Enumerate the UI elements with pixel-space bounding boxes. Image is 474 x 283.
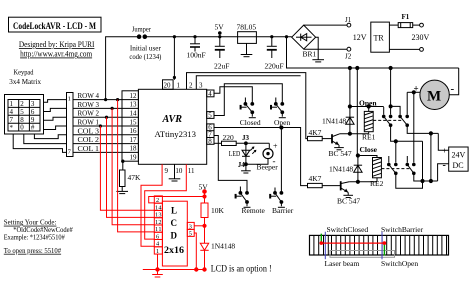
wire 5V rail top: [104, 35, 292, 101]
svg-text:1: 1: [68, 95, 71, 102]
svg-text:COL 2: COL 2: [78, 136, 100, 144]
wire RE1 node: [348, 68, 383, 111]
pin numbers 9 10 11 bottom: [165, 167, 196, 175]
wire ROW3 to LCD pin13 red: [112, 108, 154, 224]
svg-text:220: 220: [223, 133, 235, 142]
wire switch closed sensor blue: [324, 232, 326, 260]
title box: [9, 17, 102, 32]
wire ROW1 to LCD pin11 red: [100, 126, 154, 210]
resistor R4 10K: [201, 203, 225, 218]
label SwitchOpen: [381, 259, 418, 268]
svg-text:Designed by: Kripa PURI: Designed by: Kripa PURI: [19, 40, 95, 49]
svg-text:13: 13: [130, 101, 138, 109]
LCD pin boxes right 3 5: [187, 222, 194, 237]
svg-text:ROW 3: ROW 3: [78, 101, 100, 109]
node 5V label: [215, 23, 225, 37]
svg-text:13: 13: [155, 212, 162, 219]
connector J1: [345, 16, 352, 27]
voltage regulator 78L05: [237, 22, 257, 43]
wire pin8 to resistor 220: [214, 142, 222, 144]
wire LCD red five volt: [149, 183, 209, 204]
svg-text:Beeper: Beeper: [257, 163, 279, 172]
wire motor plus down to RE2b: [413, 92, 415, 162]
svg-text:C: C: [171, 218, 178, 228]
svg-text:78L05: 78L05: [237, 22, 257, 31]
label 230V: [412, 33, 430, 42]
svg-text:10K: 10K: [211, 206, 225, 215]
svg-text:M: M: [427, 89, 441, 105]
resistor R3 4K7: [308, 174, 323, 188]
wire RE2 node: [356, 68, 377, 158]
wire LCD ground rail red: [143, 233, 206, 271]
svg-text:5: 5: [20, 108, 24, 116]
svg-text:4: 4: [208, 90, 212, 98]
ground at J4: [241, 164, 251, 173]
svg-text:11: 11: [155, 226, 162, 233]
diode D3 1N4148 red: [200, 242, 235, 270]
fuse F1: [398, 13, 413, 28]
capacitor C2 22uF: [214, 37, 229, 71]
wire switch barrier sensor blue: [381, 232, 383, 260]
wire fuse to terminal: [413, 23, 424, 27]
ground at pin 10: [169, 164, 181, 181]
svg-text:Close: Close: [360, 145, 378, 154]
svg-text:47K: 47K: [128, 173, 142, 182]
svg-text:12: 12: [155, 219, 162, 226]
wire 12V rail down to motor bus: [287, 37, 459, 70]
svg-text:DC: DC: [453, 161, 464, 170]
svg-text:Remote: Remote: [242, 206, 266, 215]
transistor Q2 BC547: [322, 181, 360, 205]
relay contact RE2a: [387, 156, 398, 175]
dashed linkage RE2: [381, 168, 410, 170]
relay contact RE1b: [398, 92, 409, 127]
svg-text:2x16: 2x16: [164, 245, 185, 255]
label Close RE2: [360, 145, 378, 154]
svg-text:SwitchClosed: SwitchClosed: [327, 225, 369, 234]
svg-text:220uF: 220uF: [265, 62, 284, 71]
svg-text:J2: J2: [345, 53, 352, 61]
wire AVR pin9 to LCD pin4 red: [141, 164, 162, 246]
svg-text:*: *: [10, 124, 14, 132]
wire motor minus to bus: [449, 68, 458, 95]
svg-text:1: 1: [156, 248, 159, 255]
svg-text:1N4148: 1N4148: [211, 242, 235, 251]
svg-text:9: 9: [165, 167, 169, 175]
wire pin3 to R2 4K7: [187, 73, 308, 139]
svg-text:15: 15: [130, 118, 138, 126]
node COL2 wire: [73, 136, 122, 144]
svg-text:11: 11: [188, 167, 195, 175]
svg-text:BR1: BR1: [303, 50, 317, 59]
svg-text:14: 14: [130, 110, 138, 118]
jumper J5: [132, 25, 151, 40]
svg-text:2: 2: [156, 197, 159, 204]
wire rail to pin 1: [173, 37, 176, 80]
diode D2 1N4148: [329, 156, 362, 182]
connector J2: [345, 47, 352, 60]
ground at BR1: [312, 37, 324, 62]
svg-text:5V: 5V: [215, 23, 225, 32]
pin numbers 20 1 2 3 top: [163, 80, 204, 90]
note LCD is an option: [211, 264, 272, 274]
svg-text:12V: 12V: [353, 33, 367, 42]
svg-text:22uF: 22uF: [214, 62, 229, 71]
svg-text:ROW 4: ROW 4: [78, 92, 100, 100]
svg-text:18: 18: [130, 145, 138, 153]
svg-text:12: 12: [130, 92, 138, 100]
svg-text:SwitchBarrier: SwitchBarrier: [381, 225, 424, 234]
svg-text:6: 6: [156, 233, 159, 240]
node ROW3 wire: [73, 101, 122, 110]
svg-text:1: 1: [177, 82, 181, 90]
wire pin2: [196, 76, 300, 90]
connector keypad header: [67, 93, 74, 157]
IC U1 AVR ATtiny2313: [138, 89, 206, 164]
designer note: [19, 40, 95, 59]
ground at 78L05: [241, 43, 253, 56]
svg-text:-: -: [443, 160, 446, 171]
push button Barrier: [269, 188, 294, 215]
svg-text:http://www.avr.4mg.com: http://www.avr.4mg.com: [20, 50, 93, 59]
svg-text:3: 3: [189, 223, 192, 230]
resistor R2 4K7: [308, 128, 323, 141]
svg-text:100nF: 100nF: [187, 51, 206, 60]
wire keypad columns to connector: [13, 134, 66, 152]
note initial user code: [129, 44, 161, 61]
wire 10K to LCD pin3: [194, 218, 206, 244]
wire pin5 to button Open: [214, 84, 282, 116]
svg-text:Jumper: Jumper: [132, 25, 151, 34]
wire TR to fuse: [389, 24, 398, 26]
svg-text:ROW 1: ROW 1: [78, 119, 100, 127]
svg-text:16: 16: [130, 127, 138, 135]
wire Q2 collector node: [349, 178, 377, 184]
wire ROW4 to LCD pin14 red: [118, 100, 155, 232]
svg-text:Keypad: Keypad: [14, 68, 34, 77]
ground at Q1: [334, 145, 344, 150]
svg-text:0: 0: [20, 124, 24, 132]
wire AVR pin11 to LCD pin6 red: [145, 164, 187, 239]
transformer TR: [371, 22, 390, 52]
LCD pin boxes left: [154, 196, 162, 255]
svg-text:24V: 24V: [452, 151, 466, 160]
svg-text:2: 2: [189, 82, 193, 90]
wire Q1 collector node: [340, 132, 369, 136]
pin numbers 4-8 right: [207, 90, 214, 146]
keypad label: [9, 68, 41, 87]
label SwitchBarrier: [381, 225, 424, 234]
ground at Q2: [343, 192, 353, 197]
node ROW2 wire: [73, 110, 122, 119]
wire pin19 to 47K: [121, 160, 124, 171]
dashed linkage RE1: [373, 119, 403, 121]
push button Remote: [235, 187, 266, 215]
relay coil RE1: [362, 111, 376, 141]
svg-text:5: 5: [189, 230, 192, 237]
svg-text:6: 6: [31, 108, 35, 116]
node ROW1 wire: [73, 119, 122, 128]
svg-text:Open: Open: [359, 98, 377, 107]
svg-text:20: 20: [164, 82, 172, 90]
note setting your code: [4, 218, 73, 255]
pin numbers 12-19 left: [122, 91, 138, 162]
ground below 47K: [116, 187, 128, 194]
svg-text:ROW 2: ROW 2: [78, 110, 100, 118]
node COL3 wire: [73, 127, 122, 135]
wire RE1a common crossover: [391, 125, 423, 181]
wire pin7 to button Remote: [214, 136, 247, 193]
svg-text:Example: *1234#5510#: Example: *1234#5510#: [4, 233, 65, 242]
node COL1 wire: [73, 145, 122, 153]
svg-text:8: 8: [20, 116, 24, 124]
node ROW4 wire: [73, 92, 122, 101]
resistor 47K: [120, 170, 142, 187]
svg-text:To open press: 5510#: To open press: 5510#: [4, 246, 62, 255]
wire pin6 to transistor Q2 branch: [214, 126, 308, 186]
wire green sensor marks: [321, 234, 384, 256]
label 12V: [353, 33, 367, 42]
wire RE2 commons to 24V minus: [396, 133, 449, 188]
svg-text:J4: J4: [238, 161, 246, 169]
svg-text:4K7: 4K7: [309, 128, 322, 137]
label Laser beam: [325, 259, 360, 268]
wire BR1 to J2: [304, 48, 347, 50]
svg-text:LED: LED: [229, 149, 241, 158]
wire ROW2 to LCD pin12 red: [107, 117, 155, 217]
svg-text:19: 19: [130, 154, 138, 162]
wire motor plus: [407, 91, 420, 94]
node J4: [238, 161, 248, 169]
svg-text:+: +: [442, 147, 447, 156]
svg-text:F1: F1: [402, 13, 410, 21]
svg-text:2: 2: [20, 100, 24, 108]
svg-text:8: 8: [208, 137, 212, 145]
transistor Q1 BC547: [322, 134, 352, 158]
wire BR1 to J1: [304, 24, 347, 26]
diode D1 1N4148: [322, 107, 354, 134]
svg-text:BC 547: BC 547: [329, 149, 352, 158]
laser beam red: [320, 241, 387, 245]
wire pin4 to button Closed: [214, 87, 252, 104]
svg-text:1N4148: 1N4148: [329, 164, 353, 173]
svg-text:3: 3: [31, 100, 35, 108]
svg-text:230V: 230V: [412, 33, 430, 42]
svg-text:7: 7: [10, 116, 14, 124]
svg-text:17: 17: [130, 136, 138, 144]
svg-text:3: 3: [199, 82, 203, 90]
LED D4: [229, 143, 257, 164]
push button Open: [270, 98, 290, 128]
svg-text:code (1234): code (1234): [129, 52, 161, 61]
label Open RE1: [359, 98, 377, 107]
relay contact RE2b: [406, 156, 416, 175]
beeper BZ1: [246, 142, 278, 172]
svg-text:Closed: Closed: [240, 118, 261, 127]
svg-text:-: -: [451, 83, 455, 95]
svg-text:5: 5: [208, 111, 212, 119]
relay contact RE1a: [382, 107, 393, 127]
svg-text:4K7: 4K7: [309, 174, 322, 183]
svg-text:Barrier: Barrier: [272, 206, 294, 215]
svg-text:LCD is an option !: LCD is an option !: [211, 264, 272, 274]
svg-text:14: 14: [155, 204, 162, 211]
svg-text:J3: J3: [242, 134, 250, 142]
barrier gate drawing: [310, 235, 449, 257]
svg-text:4: 4: [10, 108, 14, 116]
svg-text:Laser beam: Laser beam: [325, 259, 360, 268]
svg-text:L: L: [171, 206, 177, 216]
wire RE1b common to 24V plus: [407, 125, 449, 150]
wire 12V bus down to RE1 contact: [389, 68, 400, 115]
svg-text:ATtiny2313: ATtiny2313: [155, 130, 197, 139]
relay coil RE2: [370, 158, 384, 189]
svg-text:TR: TR: [374, 34, 385, 43]
svg-text:D: D: [171, 231, 178, 241]
keypad 3x4 matrix: [5, 95, 44, 135]
svg-text:10: 10: [175, 167, 183, 175]
ground at LCD red: [152, 270, 163, 278]
power supply 24V DC: [442, 147, 468, 172]
LCD module 2x16: [162, 201, 187, 266]
wire barrier button feed: [280, 128, 282, 193]
svg-text:COL 3: COL 3: [78, 127, 100, 135]
svg-text:+: +: [273, 142, 278, 151]
capacitor 100nF: [187, 37, 206, 60]
svg-text:AVR: AVR: [162, 114, 182, 125]
svg-text:3x4 Matrix: 3x4 Matrix: [9, 77, 41, 86]
motor M: [414, 80, 455, 109]
svg-text:#: #: [31, 124, 35, 132]
label SwitchClosed: [327, 225, 369, 234]
svg-text:SwitchOpen: SwitchOpen: [381, 259, 418, 268]
svg-text:1: 1: [10, 100, 14, 108]
bridge rectifier BR1: [292, 25, 317, 58]
capacitor C3 220uF: [265, 37, 284, 71]
svg-text:CodeLockAVR - LCD - M: CodeLockAVR - LCD - M: [13, 21, 96, 31]
svg-text:COL 1: COL 1: [78, 145, 100, 153]
svg-text:1N4148: 1N4148: [322, 117, 346, 126]
svg-text:9: 9: [31, 116, 35, 124]
wire TR bottom to terminal: [389, 48, 423, 52]
resistor R1 220: [222, 133, 237, 146]
push button Closed: [240, 98, 261, 128]
wire keypad rows to connector: [44, 100, 67, 130]
node J3: [236, 134, 269, 145]
